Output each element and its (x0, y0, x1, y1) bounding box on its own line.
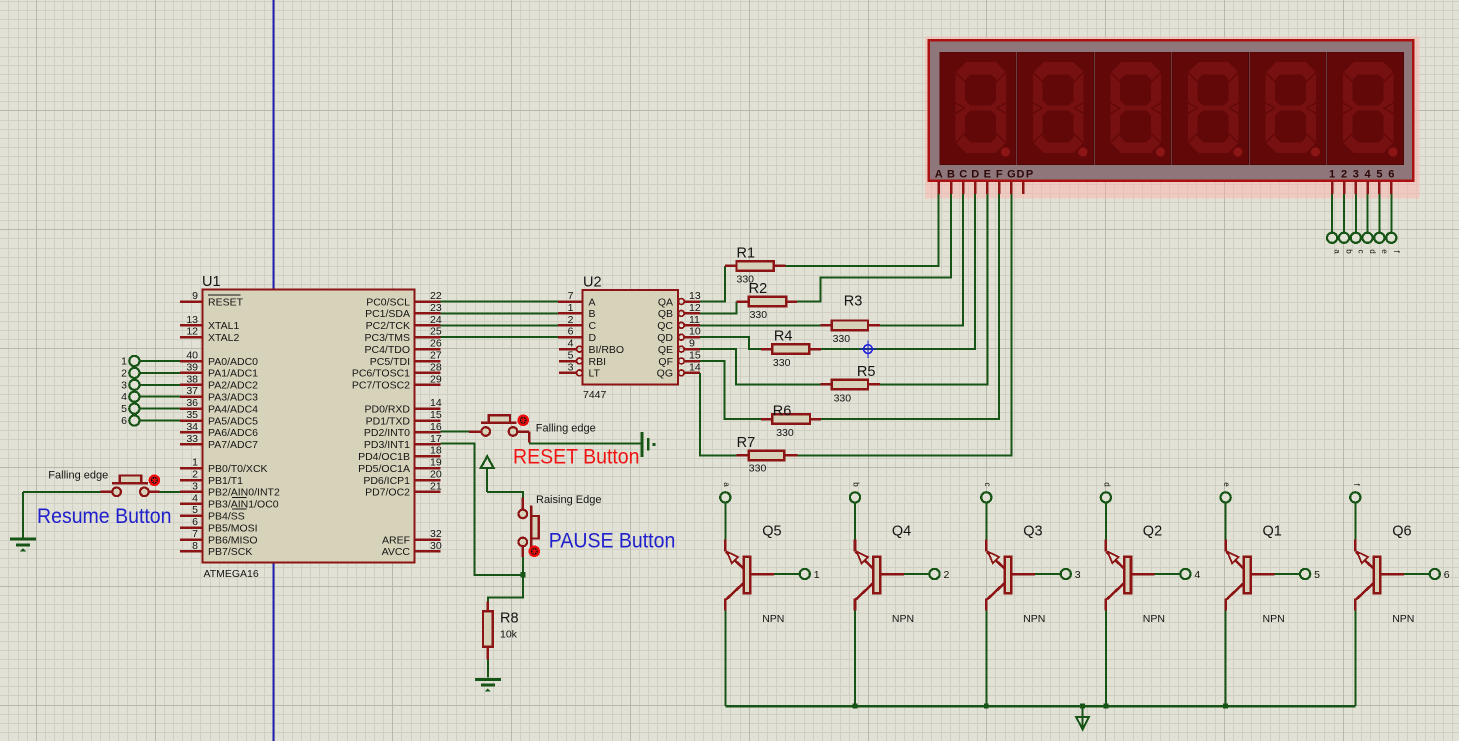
U1 pin 37 PA3/ADC3 (180, 395, 203, 398)
svg-text:1: 1 (568, 302, 574, 314)
U1 pin 30 AVCC (415, 550, 441, 553)
svg-text:PD2/INT0: PD2/INT0 (364, 427, 410, 439)
svg-text:QC: QC (657, 320, 673, 332)
svg-text:33: 33 (186, 433, 198, 445)
junction (853, 704, 858, 709)
svg-text:R6: R6 (773, 404, 792, 420)
resistor R6 leads (761, 418, 772, 421)
svg-text:11: 11 (689, 314, 700, 326)
terminal f (display) (1386, 233, 1396, 243)
svg-text:NPN: NPN (762, 613, 784, 625)
wire common rail (725, 705, 1355, 708)
resistor R8 leads (487, 601, 490, 611)
svg-text:1: 1 (814, 569, 820, 581)
button RESUME leads (101, 491, 113, 494)
display common pin 5 (1378, 182, 1381, 195)
svg-text:D: D (1017, 168, 1025, 180)
svg-text:10: 10 (689, 326, 701, 338)
U1 pin 14 PD0/RXD (415, 407, 441, 410)
terminal 2 (base) (929, 569, 939, 579)
resistor R2 body (749, 297, 787, 307)
wire (724, 502, 726, 540)
U1 pin 27 PC5/TDI (415, 360, 441, 363)
display pins A-G and DP (937, 182, 940, 195)
resistor R3 body (832, 321, 868, 331)
svg-text:36: 36 (186, 397, 198, 409)
U2 pin 6 D (558, 336, 583, 339)
U1 pin 18 PD4/OC1B (415, 455, 441, 458)
svg-text:PB0/T0/XCK: PB0/T0/XCK (208, 463, 268, 475)
U1 pin 9 RESET (180, 300, 203, 303)
display common pin 4 (1366, 182, 1369, 195)
svg-text:RESET Button: RESET Button (513, 445, 640, 468)
7-seg display body (929, 40, 1414, 181)
U1 pin 17 PD3/INT1 (415, 443, 441, 446)
U1 pin 19 PD5/OC1A (415, 467, 441, 470)
wire base (774, 573, 800, 575)
svg-text:Q2: Q2 (1143, 524, 1162, 540)
origin marker (blue crosshair) (859, 340, 876, 357)
junction (1104, 704, 1109, 709)
transistor Q5 (725, 540, 774, 611)
U1 pin 35 PA5/ADC5 (180, 419, 203, 422)
wire collector (1105, 611, 1107, 707)
wire segment A (786, 194, 939, 266)
transistor Q3 (986, 540, 1035, 611)
U2 pin 5 RBI (559, 360, 577, 363)
button contacts (481, 427, 490, 436)
svg-text:e: e (1380, 249, 1389, 254)
terminal b (transistor Q4) (850, 492, 860, 502)
display digit 6 (1327, 52, 1404, 165)
U1 pin 15 PD1/TXD (415, 419, 441, 422)
svg-text:QG: QG (657, 368, 673, 380)
svg-text:QE: QE (658, 344, 673, 356)
display digit 1 (940, 52, 1017, 165)
terminal e (transistor Q1) (1221, 492, 1231, 502)
wire collector (985, 611, 987, 707)
svg-text:5: 5 (568, 350, 574, 362)
svg-text:5: 5 (1314, 569, 1320, 581)
svg-text:3: 3 (1353, 168, 1359, 180)
wire segment D (821, 194, 975, 349)
svg-text:37: 37 (186, 385, 198, 397)
svg-text:U1: U1 (202, 274, 221, 290)
terminal 3 (U1 input) (129, 380, 139, 390)
svg-text:PB1/T1: PB1/T1 (208, 475, 243, 487)
svg-text:6: 6 (1388, 168, 1394, 180)
U2 pin 10 QD (678, 334, 684, 340)
wire segment C (880, 194, 963, 325)
svg-text:4: 4 (568, 338, 574, 350)
terminal a (transistor Q5) (720, 492, 730, 502)
svg-text:15: 15 (430, 409, 442, 421)
terminal 5 (base) (1300, 569, 1310, 579)
U2 pin 2 C (558, 324, 583, 327)
svg-text:PA2/ADC2: PA2/ADC2 (208, 380, 258, 392)
svg-text:28: 28 (430, 361, 442, 373)
terminal f (transistor Q6) (1350, 492, 1360, 502)
wire (139, 408, 180, 410)
svg-text:1: 1 (192, 457, 198, 469)
junction (1223, 704, 1228, 709)
resistor R1 body (737, 261, 774, 271)
U1 pin 21 PD7/OC2 (415, 491, 441, 494)
interactive marker (519, 416, 528, 425)
wire QA to R1 (700, 266, 725, 302)
svg-text:330: 330 (749, 463, 767, 475)
wire (139, 384, 180, 386)
svg-text:4: 4 (1194, 569, 1200, 581)
svg-text:16: 16 (430, 421, 442, 433)
terminal d (display) (1362, 233, 1372, 243)
terminal 6 (U1 input) (129, 415, 139, 425)
U2 pin 11 QC (678, 322, 684, 328)
wire U1 to U2 (441, 312, 559, 314)
U2 pin 14 QG (678, 370, 684, 376)
wire R8 to ground (487, 659, 489, 677)
svg-text:14: 14 (689, 361, 701, 373)
svg-text:E: E (984, 168, 991, 180)
svg-text:C: C (959, 168, 967, 180)
terminal e (display) (1374, 233, 1384, 243)
wire collector (1354, 611, 1356, 707)
svg-text:R5: R5 (857, 364, 876, 380)
svg-text:13: 13 (689, 290, 701, 302)
svg-text:XTAL1: XTAL1 (208, 320, 239, 332)
wire collector (724, 611, 726, 707)
svg-text:6: 6 (1444, 569, 1450, 581)
wire ground to resume button (23, 491, 101, 493)
wire segment E (880, 194, 987, 384)
U1 pin 7 PB6/MISO (180, 538, 203, 541)
svg-text:NPN: NPN (1143, 613, 1165, 625)
svg-text:330: 330 (834, 393, 852, 405)
svg-text:c: c (983, 483, 992, 487)
U1 pin 5 PB4/SS (180, 514, 203, 517)
svg-text:PC3/TMS: PC3/TMS (364, 332, 410, 344)
svg-text:PD4/OC1B: PD4/OC1B (358, 451, 410, 463)
svg-text:U2: U2 (583, 275, 602, 291)
resistor R4 leads (761, 348, 772, 351)
terminal b (display) (1339, 233, 1349, 243)
ground terminal (arrow down) (1082, 706, 1084, 728)
wire (1105, 502, 1107, 540)
svg-text:13: 13 (186, 314, 198, 326)
svg-text:39: 39 (186, 361, 198, 373)
svg-text:B: B (589, 308, 596, 320)
svg-text:PB5/MOSI: PB5/MOSI (208, 522, 258, 534)
ground (R8) (475, 678, 501, 681)
U1 pin 40 PA0/ADC0 (180, 360, 203, 363)
junction (520, 572, 525, 577)
terminal 3 (base) (1061, 569, 1071, 579)
svg-text:NPN: NPN (1392, 613, 1414, 625)
transistor Q2 (1106, 540, 1155, 611)
svg-text:G: G (1007, 168, 1016, 180)
svg-text:5: 5 (1376, 168, 1382, 180)
svg-text:PC0/SCL: PC0/SCL (366, 296, 410, 308)
svg-text:3: 3 (192, 480, 198, 492)
wire PD3 to junction (441, 443, 521, 575)
U1 pin 12 XTAL2 (180, 336, 203, 339)
U2 pin 13 QA (678, 299, 684, 305)
svg-text:7: 7 (568, 290, 574, 302)
U1 pin 38 PA2/ADC2 (180, 384, 203, 387)
resistor R7 body (749, 451, 784, 461)
terminal 5 (U1 input) (129, 404, 139, 414)
svg-text:D: D (971, 168, 979, 180)
resistor R7 leads (737, 454, 749, 457)
U1 pin 6 PB5/MOSI (180, 526, 203, 529)
display digit 2 (1017, 52, 1094, 165)
terminal 4 (U1 input) (129, 392, 139, 402)
svg-text:PA7/ADC7: PA7/ADC7 (208, 439, 258, 451)
resistor R6 body (772, 414, 810, 424)
wire (139, 372, 180, 374)
junction (1080, 704, 1085, 709)
svg-text:3: 3 (121, 379, 127, 391)
U2 pin 1 B (558, 312, 583, 315)
U2 pin 15 QF (678, 358, 684, 364)
svg-text:d: d (1368, 249, 1377, 253)
svg-text:PD3/INT1: PD3/INT1 (364, 439, 410, 451)
terminal 2 (U1 input) (129, 368, 139, 378)
svg-text:10k: 10k (500, 629, 518, 641)
svg-text:12: 12 (186, 326, 198, 338)
U1 pin 33 PA7/ADC7 (180, 443, 203, 446)
terminal c (display) (1351, 233, 1361, 243)
wire QG to R7 (700, 373, 736, 456)
svg-text:c: c (1356, 250, 1365, 254)
svg-text:PA6/ADC6: PA6/ADC6 (208, 427, 258, 439)
U1 pin 3 PB2/AIN0/INT2 (180, 491, 203, 494)
svg-text:PA0/ADC0: PA0/ADC0 (208, 356, 258, 368)
svg-text:330: 330 (773, 357, 791, 369)
U1 pin 39 PA1/ADC1 (180, 372, 203, 375)
terminal 4 (base) (1180, 569, 1190, 579)
svg-text:R3: R3 (844, 294, 863, 310)
svg-text:2: 2 (192, 469, 198, 481)
svg-text:PC7/TOSC2: PC7/TOSC2 (352, 380, 410, 392)
chip U1 ATMEGA16 body (203, 290, 415, 563)
wire reset button to power (529, 442, 642, 444)
svg-text:LT: LT (589, 368, 601, 380)
svg-text:PA4/ADC4: PA4/ADC4 (208, 403, 258, 415)
transistor Q6 (1355, 540, 1404, 611)
wire collector (1225, 611, 1227, 707)
wire (139, 420, 180, 422)
svg-text:D: D (589, 332, 597, 344)
svg-text:NPN: NPN (1023, 613, 1045, 625)
wire resume button to PB2 (160, 491, 181, 493)
svg-text:PD7/OC2: PD7/OC2 (365, 487, 410, 499)
svg-text:PD6/ICP1: PD6/ICP1 (363, 475, 410, 487)
svg-text:9: 9 (192, 290, 198, 302)
svg-text:d: d (1102, 482, 1111, 486)
svg-text:7: 7 (192, 528, 198, 540)
svg-text:PAUSE Button: PAUSE Button (549, 530, 676, 553)
svg-text:a: a (722, 482, 731, 487)
svg-text:Falling edge: Falling edge (536, 422, 596, 434)
svg-text:23: 23 (430, 302, 442, 314)
U1 pin 25 PC3/TMS (415, 336, 441, 339)
display common pin 3 (1355, 182, 1358, 195)
display digit 5 (1250, 52, 1327, 165)
button PAUSE actuator (530, 505, 533, 550)
wire (1354, 502, 1356, 540)
terminal 1 (U1 input) (129, 356, 139, 366)
svg-text:8: 8 (192, 540, 198, 552)
wire U1 to U2 (441, 336, 559, 338)
svg-text:Q4: Q4 (892, 524, 911, 540)
resistor R8 body (483, 611, 493, 647)
U1 pin 29 PC7/TOSC2 (415, 384, 441, 387)
svg-text:22: 22 (430, 290, 442, 302)
wire (139, 396, 180, 398)
svg-text:Q5: Q5 (762, 524, 781, 540)
svg-text:2: 2 (568, 314, 574, 326)
resistor R3 leads (821, 324, 832, 327)
U2 pin 12 QB (678, 311, 684, 317)
display digit 3 (1095, 52, 1172, 165)
U1 pin 13 XTAL1 (180, 324, 203, 327)
U1 pin 36 PA4/ADC4 (180, 407, 203, 410)
svg-text:27: 27 (430, 350, 442, 362)
svg-text:18: 18 (430, 445, 442, 457)
svg-text:35: 35 (186, 409, 198, 421)
display common pin 2 (1343, 182, 1346, 195)
svg-text:a: a (1333, 249, 1342, 254)
chip U2 7447 body (583, 290, 679, 385)
svg-text:PD1/TXD: PD1/TXD (366, 415, 411, 427)
sheet border line (273, 0, 275, 741)
U1 pin 26 PC4/TDO (415, 348, 441, 351)
wire power to pause button (487, 492, 523, 498)
svg-text:9: 9 (689, 338, 695, 350)
U1 pin 34 PA6/ADC6 (180, 431, 203, 434)
svg-text:QD: QD (657, 332, 673, 344)
resistor R1 leads (725, 265, 737, 268)
svg-text:PB4/SS: PB4/SS (208, 511, 245, 523)
svg-text:PD0/RXD: PD0/RXD (364, 403, 410, 415)
svg-text:6: 6 (192, 516, 198, 528)
svg-text:R7: R7 (737, 435, 756, 451)
U2 pin 9 QE (678, 346, 684, 352)
svg-text:XTAL2: XTAL2 (208, 332, 239, 344)
svg-text:25: 25 (430, 326, 442, 338)
button PAUSE leads (522, 498, 525, 510)
svg-text:21: 21 (430, 480, 442, 492)
svg-text:Q6: Q6 (1392, 524, 1411, 540)
svg-text:1: 1 (1329, 168, 1335, 180)
svg-text:3: 3 (1075, 569, 1081, 581)
svg-text:2: 2 (944, 569, 950, 581)
svg-text:3: 3 (568, 361, 574, 373)
transistor Q1 (1226, 540, 1275, 611)
svg-text:24: 24 (430, 314, 442, 326)
U1 pin 16 PD2/INT0 (415, 431, 441, 434)
wire U1 to U2 (441, 324, 559, 326)
wire junction to R8 (488, 575, 523, 601)
resistor R5 leads (821, 383, 832, 386)
svg-text:QF: QF (658, 356, 673, 368)
terminal 6 (base) (1430, 569, 1440, 579)
svg-text:F: F (996, 168, 1003, 180)
svg-text:32: 32 (430, 528, 442, 540)
svg-text:Raising Edge: Raising Edge (536, 494, 601, 506)
svg-text:12: 12 (689, 302, 701, 314)
svg-text:19: 19 (430, 457, 442, 469)
button actuator (112, 482, 148, 485)
U1 pin 20 PD6/ICP1 (415, 479, 441, 482)
U1 pin 8 PB7/SCK (180, 550, 203, 553)
wire segment B (797, 194, 951, 302)
svg-text:7447: 7447 (583, 389, 607, 401)
display common pin 6 (1390, 182, 1393, 195)
svg-text:B: B (947, 168, 955, 180)
U1 pin 2 PB1/T1 (180, 479, 203, 482)
svg-text:PC6/TOSC1: PC6/TOSC1 (352, 368, 410, 380)
svg-text:5: 5 (192, 504, 198, 516)
svg-text:26: 26 (430, 338, 442, 350)
svg-text:NPN: NPN (892, 613, 914, 625)
svg-text:P: P (1026, 168, 1033, 180)
U1 pin 22 PC0/SCL (415, 300, 441, 303)
svg-text:C: C (589, 320, 597, 332)
svg-text:2: 2 (121, 367, 127, 379)
junction (984, 704, 989, 709)
U1 pin 28 PC6/TOSC1 (415, 372, 441, 375)
wire (1225, 502, 1227, 540)
svg-text:QB: QB (658, 308, 673, 320)
power terminal (arrow up) (481, 456, 494, 468)
svg-text:330: 330 (776, 427, 794, 439)
svg-text:5: 5 (121, 403, 127, 415)
U2 pin 4 BI/RBO (559, 348, 577, 351)
svg-text:330: 330 (833, 333, 851, 345)
wire base (1155, 573, 1181, 575)
svg-text:30: 30 (430, 540, 442, 552)
terminal a (display) (1327, 233, 1337, 243)
wire base (1274, 573, 1300, 575)
svg-text:PD5/OC1A: PD5/OC1A (358, 463, 410, 475)
wire base (1404, 573, 1430, 575)
wire collector (854, 611, 856, 707)
svg-text:Falling edge: Falling edge (48, 470, 108, 482)
svg-text:BI/RBO: BI/RBO (589, 344, 625, 356)
wire (854, 502, 856, 540)
svg-text:RBI: RBI (589, 356, 607, 368)
wire (985, 502, 987, 540)
ground (resume) (22, 492, 24, 539)
svg-text:PC2/TCK: PC2/TCK (366, 320, 410, 332)
wire QB to R2 (700, 302, 736, 314)
wire pause to junction (522, 557, 524, 575)
wire segment G (797, 194, 1011, 455)
svg-text:A: A (589, 296, 596, 308)
wire QC to R3 (700, 324, 820, 326)
svg-text:34: 34 (186, 421, 198, 433)
svg-text:PA3/ADC3: PA3/ADC3 (208, 392, 258, 404)
svg-text:PB7/SCK: PB7/SCK (208, 546, 252, 558)
wire (139, 360, 180, 362)
terminal d (transistor Q2) (1101, 492, 1111, 502)
svg-text:4: 4 (1364, 168, 1371, 180)
interactive marker (150, 476, 159, 485)
svg-text:14: 14 (430, 397, 442, 409)
U1 pin 4 PB3/AIN1/OC0 (180, 503, 203, 506)
